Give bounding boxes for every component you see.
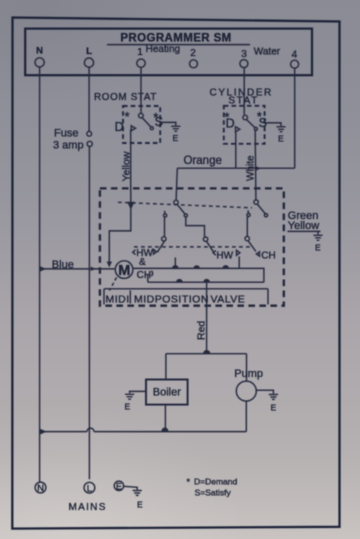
svg-text:ROOM STAT: ROOM STAT (94, 92, 157, 103)
svg-text:MIDPOSITION: MIDPOSITION (134, 293, 209, 305)
svg-text:Yellow: Yellow (288, 220, 319, 232)
svg-text:N: N (36, 46, 43, 57)
svg-text:Heating: Heating (146, 44, 180, 55)
svg-text:Boiler: Boiler (153, 387, 181, 399)
svg-text:4: 4 (292, 50, 298, 61)
svg-text:E: E (315, 243, 321, 253)
svg-text:3: 3 (241, 49, 247, 60)
svg-text:M: M (118, 263, 130, 279)
svg-text:L: L (86, 46, 92, 57)
svg-text:VALVE: VALVE (211, 293, 246, 305)
svg-text:STAT: STAT (228, 95, 258, 106)
svg-text:*: * (224, 111, 229, 125)
svg-text:HW: HW (216, 251, 233, 262)
svg-text:&: & (139, 257, 146, 268)
svg-text:E: E (137, 500, 143, 510)
svg-text:Red: Red (195, 321, 207, 340)
svg-text:D: D (115, 120, 124, 134)
svg-text:Yellow: Yellow (120, 151, 132, 181)
svg-text:MIDI: MIDI (106, 293, 130, 305)
svg-text:CH: CH (137, 270, 151, 281)
svg-text:E: E (125, 402, 131, 412)
svg-text:N: N (37, 483, 44, 494)
svg-text:E: E (278, 134, 284, 144)
svg-text:E: E (173, 133, 179, 143)
svg-text:MAINS: MAINS (69, 502, 107, 513)
svg-text:2: 2 (190, 48, 196, 59)
svg-text:E: E (116, 481, 122, 491)
svg-text:E: E (271, 403, 277, 413)
svg-text:*: * (153, 111, 158, 125)
svg-text:White: White (246, 155, 257, 181)
svg-text:CH: CH (261, 250, 275, 261)
svg-text:*: * (257, 110, 262, 124)
svg-text:*: * (187, 477, 191, 487)
svg-text:D=Demand: D=Demand (194, 476, 238, 486)
svg-text:L: L (87, 483, 92, 494)
svg-text:Water: Water (254, 46, 281, 57)
svg-text:*: * (125, 110, 130, 124)
svg-text:Orange: Orange (184, 155, 222, 167)
svg-text:Pump: Pump (234, 368, 263, 380)
svg-text:1: 1 (137, 47, 143, 58)
svg-text:Fuse: Fuse (54, 128, 78, 140)
svg-text:3 amp: 3 amp (53, 139, 84, 151)
svg-text:S=Satisfy: S=Satisfy (195, 487, 232, 497)
svg-text:PROGRAMMER SM: PROGRAMMER SM (120, 32, 231, 44)
